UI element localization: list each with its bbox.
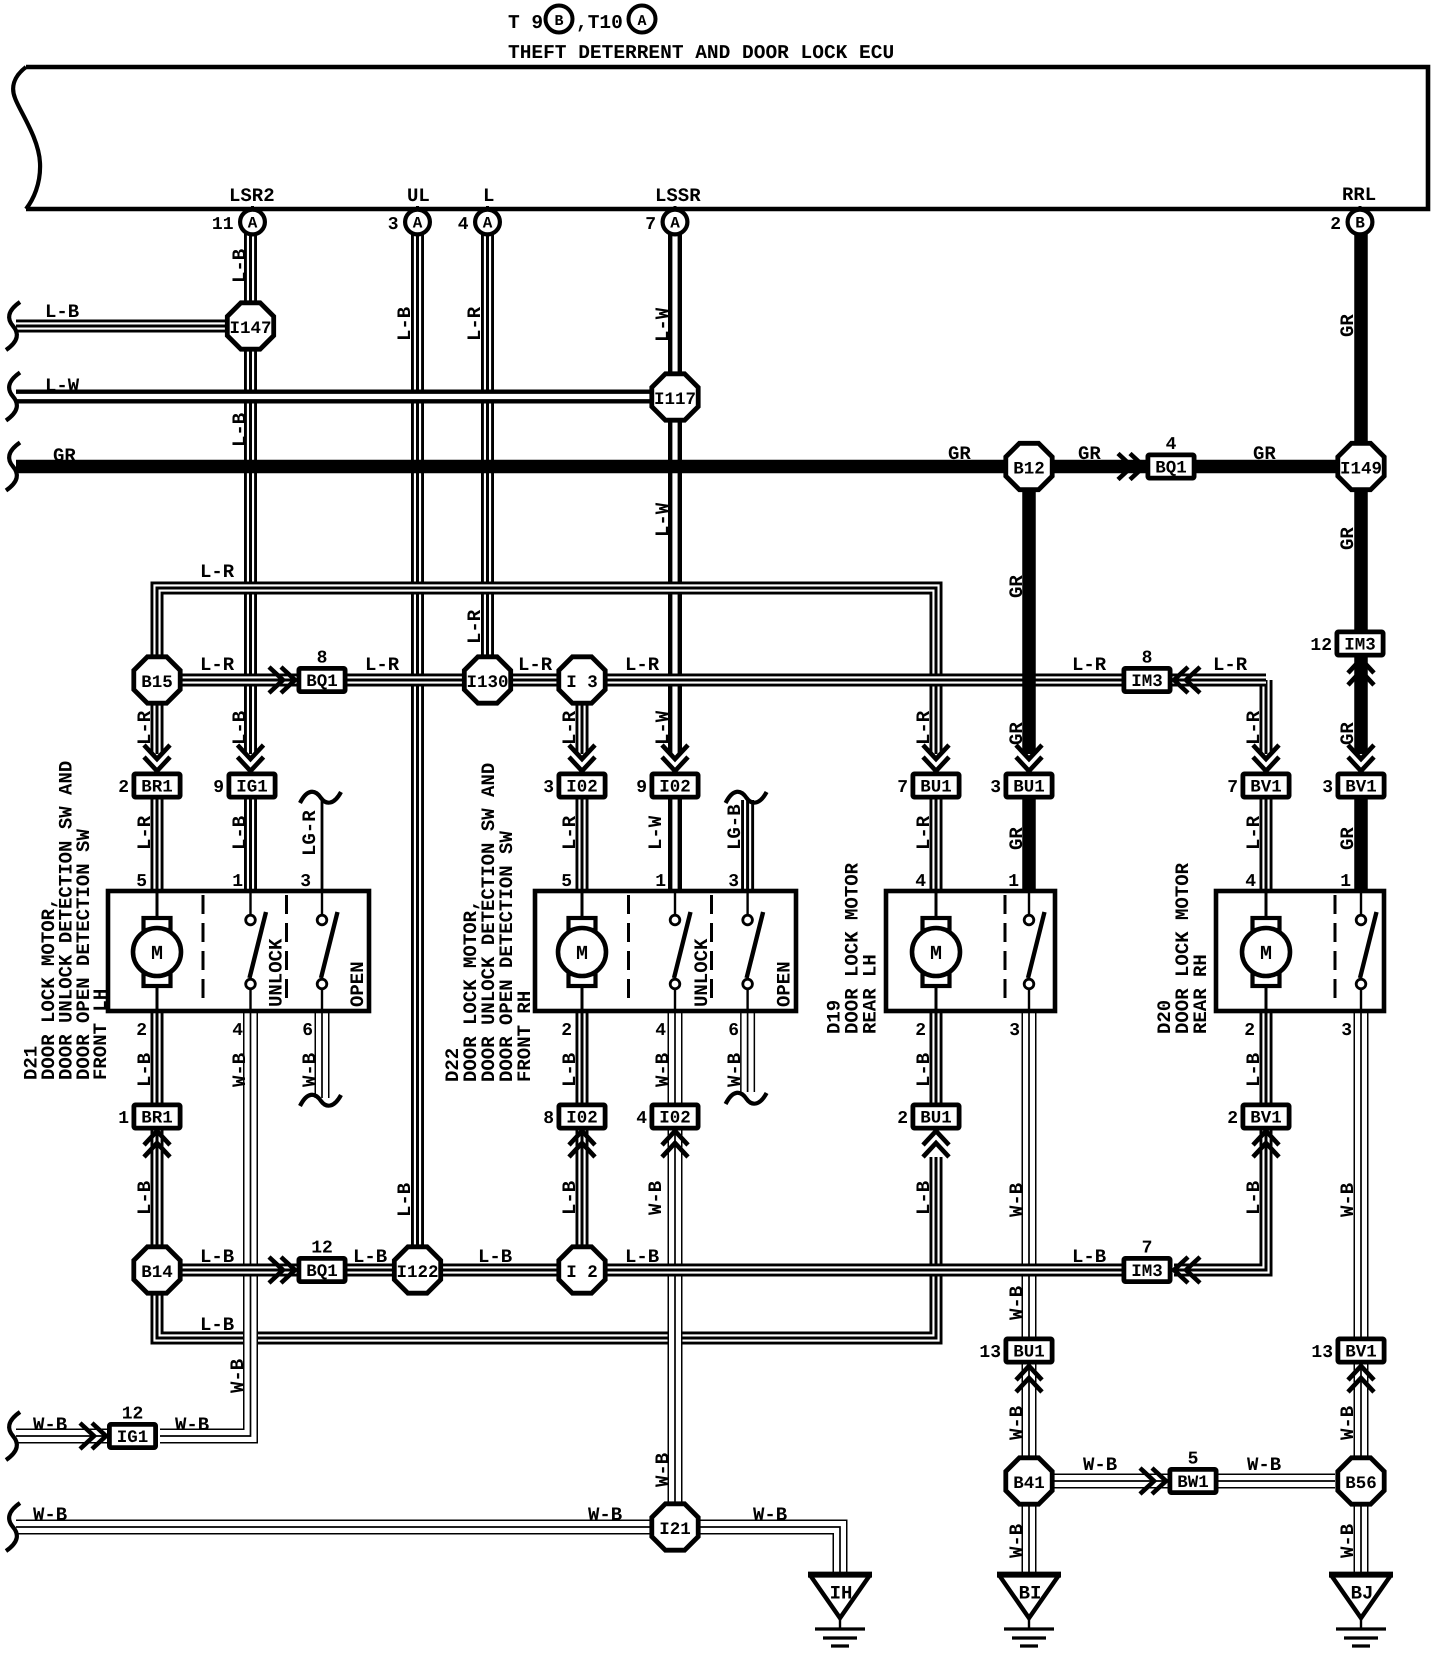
svg-text:A: A <box>637 13 646 30</box>
label L-B below BU1 pin 2 <box>913 1181 935 1215</box>
wire B12 to BQ1 pin 4 to I149 (GR) <box>1053 460 1337 474</box>
junction connector B41 <box>1006 1458 1052 1504</box>
svg-text:L-R: L-R <box>518 654 553 676</box>
label W-B above IG1 corner <box>227 1359 249 1393</box>
svg-text:W-B: W-B <box>645 1181 667 1215</box>
label GR below I149 <box>1337 527 1359 550</box>
pin number 3 of D20 pin 3 <box>1341 1021 1352 1041</box>
wire I2 to IM3 pin 7 (L-B) <box>604 1264 1124 1277</box>
label GR below B12 <box>1006 575 1028 598</box>
wire I02 pin 3 down to motor D22 pin 5 (L-R) <box>576 798 589 893</box>
svg-text:A: A <box>413 215 423 233</box>
wire break symbol at left for GR <box>6 443 20 491</box>
wire motor D21 pin 2 down to BR1 pin 1 (L-B) <box>151 1011 164 1105</box>
svg-text:I02: I02 <box>566 1109 598 1129</box>
svg-text:4: 4 <box>1166 435 1177 455</box>
wire B12 down to BU1 pin 3 (GR) <box>1022 491 1036 754</box>
label L-B below D19 pin 2 <box>913 1053 935 1087</box>
svg-text:LG-R: LG-R <box>299 810 321 856</box>
door lock motor D19 rear LH box with switch <box>886 891 1055 1011</box>
ECU pin 7 connector A (LSSR) <box>645 206 687 235</box>
svg-text:GR: GR <box>1006 722 1028 745</box>
svg-text:3: 3 <box>990 778 1001 798</box>
wire break symbol at left for L-W <box>6 373 20 421</box>
connector BR1 pin 1 <box>118 1105 180 1129</box>
pin number 4 of D19 pin 4 <box>915 872 926 892</box>
wire GR break to B12 <box>16 460 1005 474</box>
label block D21 door lock motor front LH <box>21 761 113 1080</box>
label W-B below D22 pin 6 <box>724 1053 746 1087</box>
svg-text:L-B: L-B <box>913 1053 935 1087</box>
label W-B IG1 to corner <box>175 1414 209 1436</box>
connector IM3 pin 12 <box>1310 632 1383 656</box>
wire I02 pin 8 down to I2 (L-B) <box>576 1128 589 1247</box>
wire ECU pin 2 RRL down to I149 (GR) <box>1354 233 1368 442</box>
svg-text:2: 2 <box>897 1109 908 1129</box>
label L-B on UL wire <box>394 307 416 341</box>
svg-text:GR: GR <box>1253 443 1276 465</box>
label L-R above BU1 pin 7 <box>913 710 935 745</box>
label L-B below D22 pin 2 <box>559 1053 581 1087</box>
svg-text:L-B: L-B <box>200 1314 234 1336</box>
svg-text:BR1: BR1 <box>141 1109 173 1129</box>
connector BQ1 pin 4 <box>1148 435 1194 479</box>
svg-text:9: 9 <box>636 778 647 798</box>
svg-text:3: 3 <box>1009 1021 1020 1041</box>
svg-text:LSR2: LSR2 <box>229 185 275 207</box>
svg-text:1: 1 <box>655 872 666 892</box>
svg-text:1: 1 <box>118 1109 129 1129</box>
svg-text:W-B: W-B <box>1083 1454 1117 1476</box>
svg-text:L-R: L-R <box>625 654 660 676</box>
label L-R B15 to BQ1 <box>200 654 235 676</box>
svg-text:A: A <box>670 215 680 233</box>
label L-B below I02 pin 8 <box>559 1181 581 1215</box>
wire B41 down to ground BI (W-B) <box>1022 1503 1037 1574</box>
svg-text:L-B: L-B <box>913 1181 935 1215</box>
svg-text:A: A <box>248 215 258 233</box>
label W-B right of I21 <box>753 1504 787 1526</box>
chevron arrows down into BR1 pin 2 <box>144 745 170 771</box>
pin number 6 of D22 pin 6 <box>728 1021 739 1041</box>
connector IM3 pin 7 <box>1124 1239 1170 1283</box>
chevron arrows break to IG1 <box>80 1423 106 1449</box>
svg-text:W-B: W-B <box>1337 1524 1359 1558</box>
wire LG-B into D22 pin 3 <box>741 800 754 893</box>
svg-text:RRL: RRL <box>1342 184 1376 206</box>
svg-text:I02: I02 <box>659 778 691 798</box>
connector I02 pin 4 <box>636 1105 698 1129</box>
svg-text:L-W: L-W <box>652 502 674 537</box>
svg-text:FRONT RH: FRONT RH <box>514 991 536 1082</box>
svg-text:W-B: W-B <box>1006 1406 1028 1440</box>
svg-text:B15: B15 <box>141 673 173 693</box>
svg-text:L-B: L-B <box>1072 1246 1106 1268</box>
wire break to I147 (L-B) <box>16 320 230 333</box>
svg-text:L-B: L-B <box>229 711 251 745</box>
svg-text:L-B: L-B <box>559 1181 581 1215</box>
label L-B B14 to BQ1 <box>200 1246 234 1268</box>
label W-B below I02 pin 4 <box>645 1181 667 1215</box>
svg-text:4: 4 <box>636 1109 647 1129</box>
svg-text:M: M <box>930 943 942 966</box>
svg-text:L-B: L-B <box>229 249 251 283</box>
wire B56 down to ground BJ (W-B) <box>1354 1503 1369 1574</box>
ground BI <box>997 1575 1061 1646</box>
svg-text:W-B: W-B <box>33 1504 67 1526</box>
wire ECU pin 11 LSR2 down to I147 (L-B) <box>244 233 257 302</box>
svg-text:W-B: W-B <box>1247 1454 1281 1476</box>
label L-R BQ1 to I130 <box>365 654 400 676</box>
svg-text:11: 11 <box>212 215 234 235</box>
svg-text:T 9: T 9 <box>508 12 543 34</box>
svg-text:3: 3 <box>300 872 311 892</box>
svg-text:5: 5 <box>1188 1450 1199 1470</box>
svg-text:BU1: BU1 <box>1013 778 1045 798</box>
svg-text:A: A <box>483 215 493 233</box>
label block D22 door lock motor front RH <box>442 763 536 1082</box>
chevron arrows up into BV1 pin 13 <box>1348 1366 1374 1392</box>
connector I02 pin 9 <box>636 774 698 798</box>
svg-text:4: 4 <box>655 1021 666 1041</box>
svg-text:BV1: BV1 <box>1345 778 1377 798</box>
label L-W below I117 <box>652 502 674 537</box>
pin number 4 of D21 pin 4 <box>232 1021 243 1041</box>
label L-B right of I2 <box>625 1246 659 1268</box>
chevron arrows down into BV1 pin 3 <box>1348 745 1374 771</box>
ECU pin 2 connector B (RRL) <box>1330 206 1372 235</box>
svg-text:13: 13 <box>1311 1343 1333 1363</box>
wire break to I21 (W-B) <box>16 1520 652 1535</box>
svg-text:L-R: L-R <box>913 710 935 745</box>
label W-B at I21 break <box>33 1504 67 1526</box>
wire motor D19 pin 2 down to BU1 pin 2 (L-B) <box>930 1011 943 1105</box>
label comma and T10 <box>576 12 623 34</box>
wire I117 down to chevron above I02 pin 9 (L-W) <box>668 420 682 754</box>
chevron arrows into IM3 pin 8 <box>1174 667 1200 693</box>
label L-R B15 to BR1 <box>134 710 156 745</box>
svg-text:L-B: L-B <box>559 1053 581 1087</box>
svg-text:IH: IH <box>830 1583 853 1605</box>
svg-text:BJ: BJ <box>1351 1583 1374 1605</box>
svg-text:GR: GR <box>1337 722 1359 745</box>
svg-text:3: 3 <box>543 778 554 798</box>
pin number 2 of D21 pin 2 <box>136 1021 147 1041</box>
svg-text:8: 8 <box>1142 649 1153 669</box>
svg-text:L-R: L-R <box>913 815 935 850</box>
svg-text:BW1: BW1 <box>1177 1473 1209 1493</box>
label L-R above BV1 pin 7 <box>1243 710 1265 745</box>
svg-text:I147: I147 <box>229 319 271 339</box>
svg-text:W-B: W-B <box>229 1053 251 1087</box>
svg-text:L-B: L-B <box>134 1181 156 1215</box>
svg-text:UNLOCK: UNLOCK <box>266 938 288 1007</box>
svg-text:W-B: W-B <box>724 1053 746 1087</box>
ECU pin name L <box>483 185 494 207</box>
svg-text:L-B: L-B <box>625 1246 659 1268</box>
svg-text:BU1: BU1 <box>920 1109 952 1129</box>
wire motor D22 pin 2 down to I02 pin 8 (L-B) <box>576 1011 589 1105</box>
svg-text:L-B: L-B <box>478 1246 512 1268</box>
ECU pin name LSSR <box>655 185 701 207</box>
label L-B below BV1 pin 2 <box>1243 1181 1265 1215</box>
pin number 1 of D22 pin 1 <box>655 872 666 892</box>
wire I149 down to IM3 pin 12 (GR) <box>1354 491 1368 632</box>
chevron arrows up into I02 pin 4 <box>662 1131 688 1157</box>
label L-R below BU1 pin 7 <box>913 815 935 850</box>
pin number 3 of D22 pin 3 <box>728 872 739 892</box>
connector BV1 pin 7 <box>1227 774 1289 798</box>
chevron arrows up into BU1 pin 13 <box>1016 1366 1042 1392</box>
wire B15 down to BR1 pin 2 (L-R) <box>151 705 164 754</box>
svg-text:M: M <box>151 943 163 966</box>
svg-text:L-W: L-W <box>652 710 674 745</box>
connector BV1 pin 13 <box>1311 1339 1384 1363</box>
svg-text:L-B: L-B <box>394 1183 416 1217</box>
svg-text:9: 9 <box>213 778 224 798</box>
svg-text:12: 12 <box>1310 636 1332 656</box>
label L-B on UL wire above I122 <box>394 1183 416 1217</box>
circled letter B <box>546 6 573 33</box>
wire BU1 pin 7 down to motor D19 pin 4 (L-R) <box>930 798 943 893</box>
label W-B below D22 pin 4 <box>652 1053 674 1087</box>
label W-B below D21 pin 4 <box>229 1053 251 1087</box>
label L-R above I02 pin 3 <box>559 710 581 745</box>
svg-text:LG-B: LG-B <box>724 804 746 850</box>
svg-text:1: 1 <box>232 872 243 892</box>
pin number 2 of D19 pin 2 <box>915 1021 926 1041</box>
svg-text:2: 2 <box>1244 1021 1255 1041</box>
pin number 1 of D21 pin 1 <box>232 872 243 892</box>
svg-text:4: 4 <box>232 1021 243 1041</box>
svg-text:REAR LH: REAR LH <box>860 954 882 1034</box>
pin number 3 of D19 pin 3 <box>1009 1021 1020 1041</box>
label GR above BV1 pin 3 <box>1337 722 1359 745</box>
label W-B below B56 <box>1337 1524 1359 1558</box>
wire B14 loop down right to BU1 pin 2 (L-B) <box>157 1157 936 1338</box>
svg-text:LSSR: LSSR <box>655 185 701 207</box>
wire IM3 pin 8 chevrons to corner (L-R) <box>1171 674 1266 687</box>
label L-R before IM3 pin 8 <box>1072 654 1107 676</box>
label L-W above I02 pin 9 <box>652 710 674 745</box>
wire B14 to BQ1 pin 12 to I122 (L-B) <box>180 1264 395 1277</box>
svg-text:I117: I117 <box>654 390 696 410</box>
wire I21 right then down to ground IH (W-B) <box>698 1527 840 1574</box>
svg-text:GR: GR <box>1006 575 1028 598</box>
wire IG1 connector down to door lock motor D21 pin 1 (L-B) <box>244 798 257 893</box>
label L-B at left break <box>45 301 79 323</box>
svg-text:GR: GR <box>948 443 971 465</box>
svg-text:BI: BI <box>1019 1583 1042 1605</box>
svg-text:BU1: BU1 <box>1013 1343 1045 1363</box>
label W-B at IG1 break <box>33 1414 67 1436</box>
connector BQ1 pin 12 <box>299 1239 345 1283</box>
svg-text:BV1: BV1 <box>1345 1343 1377 1363</box>
svg-text:L-R: L-R <box>1072 654 1107 676</box>
connector BR1 pin 2 <box>118 774 180 798</box>
label W-B below D20 pin 3 <box>1337 1183 1359 1217</box>
door lock motor D20 rear RH box with switch <box>1216 891 1384 1011</box>
svg-text:7: 7 <box>897 778 908 798</box>
svg-text:L-R: L-R <box>134 815 156 850</box>
svg-text:THEFT DETERRENT AND DOOR LOCK: THEFT DETERRENT AND DOOR LOCK ECU <box>508 42 894 64</box>
svg-text:B: B <box>554 13 563 30</box>
svg-text:FRONT LH: FRONT LH <box>90 989 112 1080</box>
label GR after B12 <box>1078 443 1101 465</box>
wire break symbol at left for W-B to IG1 <box>6 1412 20 1460</box>
label W-B below D19 pin 3 <box>1006 1183 1028 1217</box>
svg-text:L-R: L-R <box>1243 815 1265 850</box>
junction connector B56 <box>1338 1458 1384 1504</box>
svg-text:L-R: L-R <box>200 561 235 583</box>
junction connector B14 <box>134 1247 180 1293</box>
wire break squiggle above LG-B <box>726 792 767 803</box>
svg-text:3: 3 <box>1341 1021 1352 1041</box>
label GR at left break <box>53 445 76 467</box>
chevron arrows up into BV1 pin 2 <box>1253 1131 1279 1157</box>
svg-text:4: 4 <box>1245 872 1256 892</box>
svg-text:I02: I02 <box>659 1109 691 1129</box>
label W-B before I21 <box>588 1504 622 1526</box>
connector I02 pin 3 <box>543 774 605 798</box>
ECU pin name UL <box>407 185 430 207</box>
svg-text:3: 3 <box>388 215 399 235</box>
svg-text:L-R: L-R <box>464 306 486 341</box>
label GR below BV1 pin 3 <box>1337 827 1359 850</box>
circled letter A <box>629 6 656 33</box>
pin number 5 of D22 pin 5 <box>561 872 572 892</box>
svg-text:L-W: L-W <box>645 815 667 850</box>
label L-B BQ1 to I122 <box>353 1246 387 1268</box>
svg-text:2: 2 <box>1330 215 1341 235</box>
label L-W on LSSR wire <box>652 307 674 342</box>
svg-text:L-R: L-R <box>464 609 486 644</box>
svg-text:W-B: W-B <box>1337 1406 1359 1440</box>
connector IG1 pin 12 <box>109 1405 155 1449</box>
wire break symbol at left for W-B to I21 <box>6 1503 20 1551</box>
wire BU1 pin 13 down to B41 (W-B) <box>1022 1362 1037 1459</box>
ECU pin 4 connector A (L) <box>458 206 500 235</box>
svg-text:IG1: IG1 <box>236 778 268 798</box>
svg-text:L-B: L-B <box>134 1053 156 1087</box>
ground BJ <box>1329 1575 1393 1646</box>
label L-B pin11 wire <box>229 249 251 283</box>
svg-text:GR: GR <box>53 445 76 467</box>
svg-text:I122: I122 <box>396 1263 438 1283</box>
label L-B before IM3 pin 7 <box>1072 1246 1106 1268</box>
svg-text:6: 6 <box>728 1021 739 1041</box>
junction connector I122 <box>394 1247 440 1293</box>
svg-text:W-B: W-B <box>33 1414 67 1436</box>
label GR before B12 <box>948 443 971 465</box>
svg-text:L: L <box>483 185 494 207</box>
wire motor D20 pin 3 down to BV1 pin 13 (W-B) <box>1354 1011 1369 1340</box>
wire break squiggle above LG-R <box>300 792 341 803</box>
pin number 2 of D20 pin 2 <box>1244 1021 1255 1041</box>
pin number 1 of D19 pin 1 <box>1008 872 1019 892</box>
label L-R below BV1 pin 7 <box>1243 815 1265 850</box>
chevron arrows B15 to BQ1 <box>269 667 295 693</box>
wire ECU pin 3 UL down to I122 (L-B) <box>411 233 424 1247</box>
chevron arrows B41 to BW1 <box>1140 1468 1166 1494</box>
svg-text:L-B: L-B <box>394 307 416 341</box>
ECU pin 3 connector A (UL) <box>388 206 430 235</box>
svg-text:4: 4 <box>915 872 926 892</box>
svg-text:2: 2 <box>118 778 129 798</box>
connector BU1 pin 2 <box>897 1105 959 1129</box>
wire L-R loop: corner to B15 and down right rail to BU1 pin 7 <box>157 588 936 754</box>
label L-R right of I3 <box>625 654 660 676</box>
label L-B below D20 pin 2 <box>1243 1053 1265 1087</box>
wire break squiggle below D22 pin 6 <box>726 1093 767 1104</box>
wire I02 pin 4 down to I21 (W-B) <box>668 1128 683 1505</box>
label LG-R <box>299 810 321 856</box>
svg-text:7: 7 <box>645 215 656 235</box>
label L-B above IG1 <box>229 711 251 745</box>
svg-text:L-R: L-R <box>1243 710 1265 745</box>
svg-text:I02: I02 <box>566 778 598 798</box>
svg-text:W-B: W-B <box>1006 1183 1028 1217</box>
label W-B B41 to BW1 <box>1083 1454 1117 1476</box>
pin number 3 of D21 pin 3 <box>300 872 311 892</box>
connector BU1 pin 3 <box>990 774 1052 798</box>
junction connector I117 <box>652 374 698 420</box>
svg-text:L-B: L-B <box>229 816 251 850</box>
svg-text:IG1: IG1 <box>117 1428 149 1448</box>
label L-B below BR1 pin 1 <box>134 1181 156 1215</box>
svg-text:3: 3 <box>1322 778 1333 798</box>
label W-B below D21 pin 6 <box>299 1053 321 1087</box>
svg-text:8: 8 <box>317 649 328 669</box>
svg-text:B: B <box>1355 215 1365 233</box>
connector BV1 pin 3 <box>1322 774 1384 798</box>
label L-W below I02 pin 9 <box>645 815 667 850</box>
wire motor D20 pin 2 down to BV1 pin 2 (L-B) <box>1260 1011 1273 1105</box>
svg-text:GR: GR <box>1337 827 1359 850</box>
svg-text:BV1: BV1 <box>1250 778 1282 798</box>
junction connector I149 <box>1338 443 1384 489</box>
ECU pin 11 connector A (LSR2) <box>212 206 265 235</box>
label L-B on lower loop <box>200 1314 234 1336</box>
svg-text:L-B: L-B <box>45 301 79 323</box>
svg-text:W-B: W-B <box>652 1453 674 1487</box>
wire corner to BV1 pin 7 (L-R) right of IM3 <box>1260 680 1273 754</box>
svg-text:L-R: L-R <box>559 815 581 850</box>
chevron arrows down into BV1 pin 7 <box>1253 745 1279 771</box>
svg-text:BU1: BU1 <box>920 778 952 798</box>
svg-text:L-W: L-W <box>45 375 80 397</box>
svg-text:B41: B41 <box>1013 1474 1045 1494</box>
chevron arrows down into IG1 pin 9 <box>238 745 264 771</box>
wire BR1 pin 1 down to B14 (L-B) <box>151 1128 164 1247</box>
junction connector B12 <box>1006 443 1052 489</box>
wire ECU pin 4 L down to I130 (L-R) <box>481 233 494 657</box>
wire break squiggle below D21 pin 6 <box>300 1095 341 1106</box>
svg-text:L-R: L-R <box>1213 654 1248 676</box>
svg-text:2: 2 <box>1227 1109 1238 1129</box>
label GR after BQ1 pin 4 <box>1253 443 1276 465</box>
pin number 5 of D21 pin 5 <box>136 872 147 892</box>
chevron arrows down into I02 pin 3 <box>569 745 595 771</box>
wire BV1 pin 13 down to B56 (W-B) <box>1354 1362 1369 1459</box>
label L-R below I02 pin 3 <box>559 815 581 850</box>
wire motor D22 pin 4 down to I02 pin 4 (W-B) <box>668 1011 683 1105</box>
wire break symbol at left for L-B <box>6 302 20 350</box>
label L-R right of IM3 pin 8 <box>1213 654 1248 676</box>
connector BU1 pin 13 <box>979 1339 1052 1363</box>
ground IH <box>808 1575 872 1646</box>
svg-text:6: 6 <box>302 1021 313 1041</box>
